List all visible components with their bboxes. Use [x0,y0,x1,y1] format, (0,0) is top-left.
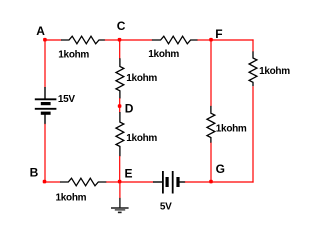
svg-text:D: D [125,102,134,116]
wire A down to battery V1 [44,40,46,88]
svg-text:B: B [30,166,39,180]
wire B to R6 [45,181,61,183]
resistor R6 (B-E, 1kohm) [60,178,107,186]
svg-text:1kohm: 1kohm [259,66,290,77]
resistor R1 (A-C, 1kohm) [61,36,105,44]
wire F to top-right corner [211,39,254,41]
wire R4 down to E [119,156,121,182]
svg-text:1kohm: 1kohm [148,49,179,60]
node B [30,166,47,184]
wire F down to R5 [210,40,212,106]
svg-text:1kohm: 1kohm [126,133,157,144]
wire E down to ground [119,182,121,198]
svg-text:F: F [215,27,222,41]
wire battery V2 to G [185,181,211,183]
svg-text:5V: 5V [160,201,172,212]
resistor R3 (C-D, 1kohm) [116,58,124,98]
wire R5 down to G [210,143,212,182]
svg-text:G: G [216,162,225,176]
wire C to R2 [120,39,153,41]
wire E to battery V2 [120,181,154,183]
ground [111,198,129,213]
resistor R5 (F-G, 1kohm) [207,106,215,143]
battery V1 15V [35,87,57,124]
svg-text:1kohm: 1kohm [56,193,87,204]
wire R3 to node D [119,98,121,106]
resistor R7 (right edge, 1kohm) [249,51,257,86]
wire A to R1 [45,39,62,41]
node D [118,102,134,116]
wire R6 to E [106,181,120,183]
resistor R4 (D-E, 1kohm) [116,112,124,156]
resistor R2 (C-F, 1kohm) [152,36,198,44]
wire R2 to F [197,39,211,41]
svg-text:A: A [36,24,45,38]
node A [36,24,46,41]
svg-text:C: C [117,19,126,33]
wire R1 to C [105,39,120,41]
node C [117,19,126,41]
battery V2 5V [153,171,185,194]
node F [209,27,222,42]
svg-text:1kohm: 1kohm [216,124,247,135]
wire D down to R4 [119,106,121,112]
svg-text:15V: 15V [58,94,76,105]
svg-text:E: E [125,167,133,181]
node E [118,167,133,184]
node G [209,162,225,184]
wire C down to R3 [119,40,121,59]
wire bottom-right corner to G [211,181,254,183]
wire top-right corner down to R7 [252,39,254,51]
wire R7 down to bottom-right corner [252,86,254,182]
svg-text:1kohm: 1kohm [58,49,89,60]
wire battery V1 down to B [44,124,46,182]
svg-text:1kohm: 1kohm [126,73,157,84]
